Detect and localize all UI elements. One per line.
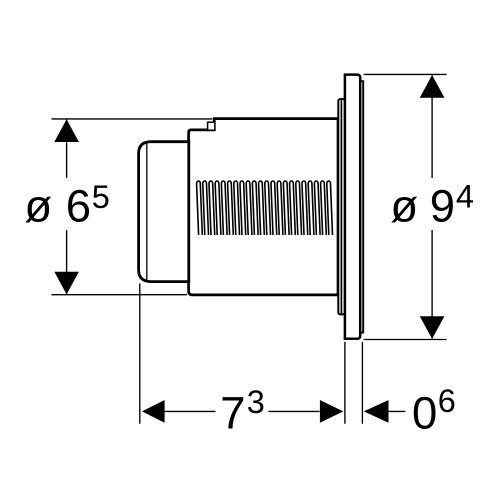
svg-text:ø: ø bbox=[24, 180, 52, 231]
cap inner contour bbox=[146, 144, 148, 280]
label 0.6 bbox=[412, 383, 456, 439]
arrow right 73 bbox=[320, 400, 343, 423]
dimension line 73 bbox=[164, 410, 216, 412]
arrow down left bbox=[54, 272, 79, 295]
back disc inner edge bbox=[340, 100, 342, 314]
dimension line left bbox=[66, 120, 68, 179]
svg-text:5: 5 bbox=[92, 179, 110, 215]
arrow up left bbox=[54, 119, 79, 142]
product outline group bbox=[139, 75, 364, 339]
ribbed knurl section bbox=[197, 181, 333, 235]
svg-text:7: 7 bbox=[220, 387, 245, 438]
arrow up right bbox=[420, 75, 445, 98]
svg-text:6: 6 bbox=[438, 383, 456, 419]
back disc gasket bbox=[338, 99, 345, 314]
extension line top left bbox=[52, 118, 213, 120]
extension line bottom right bbox=[364, 339, 447, 341]
svg-text:6: 6 bbox=[66, 180, 91, 231]
dimension graphics bbox=[52, 74, 447, 423]
svg-text:ø: ø bbox=[390, 180, 418, 231]
extension line flange left bbox=[344, 342, 346, 424]
extension line flange right bbox=[361, 342, 363, 424]
dimension line right bbox=[431, 75, 433, 178]
svg-text:0: 0 bbox=[412, 387, 437, 438]
arrow left 06 bbox=[364, 400, 389, 423]
cap button bbox=[139, 142, 189, 282]
flange plate bbox=[345, 75, 360, 339]
extension line bottom cap bbox=[139, 284, 141, 424]
body housing outline bbox=[189, 119, 338, 295]
label 7.3 bbox=[220, 384, 265, 438]
extension line bottom left bbox=[52, 294, 188, 296]
svg-text:3: 3 bbox=[247, 384, 265, 420]
svg-text:4: 4 bbox=[456, 179, 474, 215]
extension line top right bbox=[364, 73, 447, 75]
label dia 9.4 bbox=[390, 179, 474, 232]
arrow down right bbox=[420, 316, 445, 339]
arrow left 73 bbox=[142, 400, 165, 423]
label dia 6.5 bbox=[24, 179, 109, 231]
svg-text:9: 9 bbox=[430, 180, 455, 231]
clip detail on body top bbox=[208, 122, 215, 130]
dimension tail 06 bbox=[388, 410, 405, 412]
rim step behind flange bbox=[360, 81, 363, 332]
